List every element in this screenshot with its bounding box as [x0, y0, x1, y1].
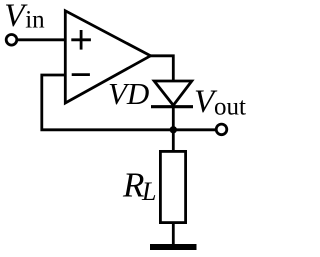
resistor RL [160, 151, 185, 222]
wire resistor to ground [172, 222, 175, 246]
svg-text:VD: VD [108, 76, 149, 111]
wire Vin to op-amp + input [17, 38, 67, 41]
wire feedback: - input left, down, along bottom to output node [42, 75, 174, 130]
svg-text:L: L [141, 177, 156, 206]
wire node to Vout terminal [173, 128, 216, 131]
op-amp + input marker [71, 30, 91, 50]
wire op-amp output to diode [149, 56, 173, 81]
wire node to resistor [172, 130, 175, 152]
ground [150, 244, 197, 250]
wire diode cathode to node [172, 107, 175, 130]
svg-text:out: out [214, 94, 246, 121]
input terminal Vin [6, 35, 17, 46]
output terminal Vout [216, 124, 227, 135]
op-amp U1 [65, 11, 150, 103]
node junction dot [170, 126, 177, 133]
diode VD [151, 81, 193, 107]
op-amp - input marker [72, 73, 90, 76]
svg-text:in: in [25, 7, 45, 34]
